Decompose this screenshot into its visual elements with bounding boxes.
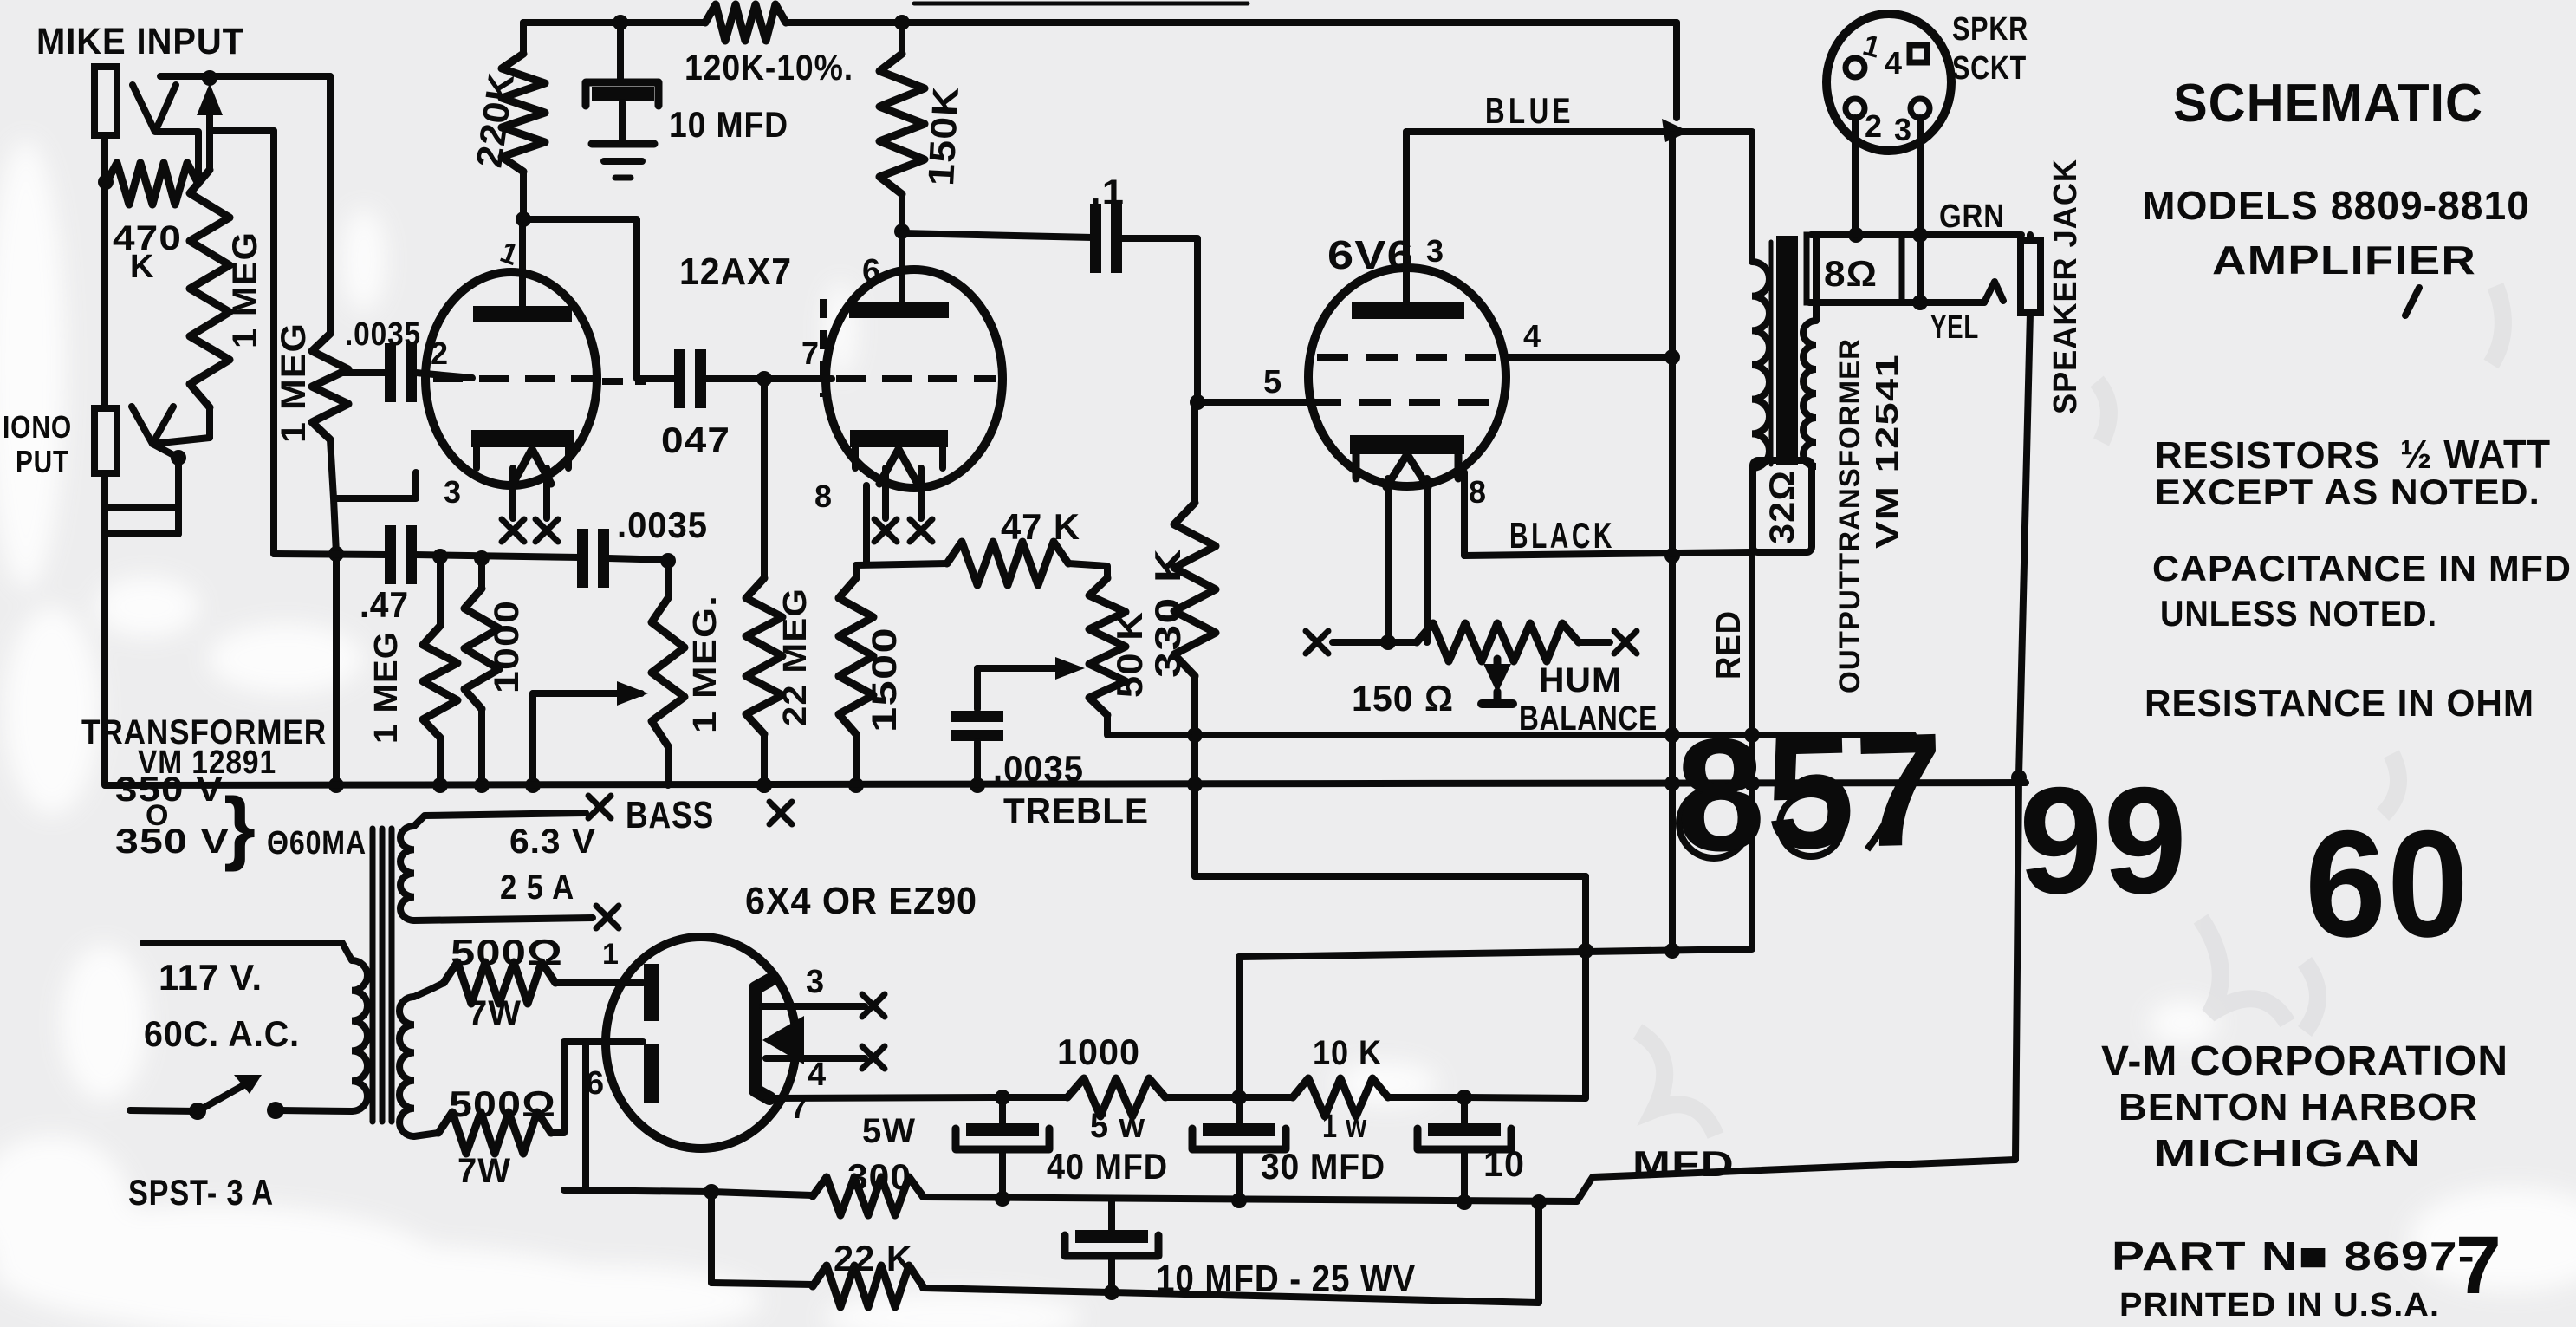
- node tube2 grid / 22MEG: [756, 371, 772, 387]
- 6X4 pin4 heater lead: [766, 1055, 865, 1062]
- svg-text:1 MEG.: 1 MEG.: [687, 595, 723, 733]
- svg-text:40 MFD: 40 MFD: [1047, 1146, 1168, 1187]
- svg-text:V-M CORPORATION: V-M CORPORATION: [2101, 1038, 2508, 1084]
- X mark tube1 heater b: [535, 519, 558, 542]
- svg-text:GRN: GRN: [1939, 198, 2005, 235]
- potentiometer 150 ohm hum balance: [1417, 623, 1579, 661]
- wire OT primary bottom to RED: [1749, 468, 1755, 552]
- node cathode/hum wire: [1380, 634, 1396, 650]
- tube2 cathode bar: [850, 430, 948, 447]
- wire jog to tube1 cathode pin3: [334, 472, 416, 498]
- svg-text:2: 2: [431, 335, 449, 371]
- svg-text:Θ60MA: Θ60MA: [267, 825, 367, 862]
- socket pin3 lead: [1917, 118, 1924, 302]
- node on treble bus: [328, 777, 344, 793]
- node pin5/330K: [1190, 394, 1205, 410]
- svg-text:8: 8: [814, 478, 833, 514]
- output transformer primary coil: [1752, 262, 1769, 468]
- tube2 grid dashed line: [836, 375, 996, 382]
- node pot bottom: [171, 450, 186, 465]
- svg-text:5: 5: [1263, 364, 1282, 400]
- svg-text:60C. A.C.: 60C. A.C.: [144, 1013, 300, 1054]
- node volume pot wiper: [202, 70, 217, 86]
- resistor 120K-10% on top bus: [705, 4, 786, 41]
- wire .047 to tube2 grid: [705, 375, 832, 382]
- svg-text:MIKE INPUT: MIKE INPUT: [36, 21, 244, 62]
- resistor 22 MEG: [761, 379, 768, 578]
- 6V6 plate bar: [1352, 302, 1464, 319]
- tube1 cathode bar: [471, 430, 574, 447]
- resistor 47 K: [947, 542, 1068, 585]
- svg-text:MICHIGAN: MICHIGAN: [2153, 1132, 2422, 1174]
- resistor 300 5W: [813, 1177, 923, 1215]
- svg-text:330 K: 330 K: [1147, 548, 1188, 678]
- svg-text:.1: .1: [1090, 173, 1125, 211]
- treble wiper wire: [977, 665, 1074, 672]
- svg-text:1 MEG: 1 MEG: [275, 322, 313, 443]
- tube 12AX7 section A envelope: [425, 272, 597, 485]
- svg-text:10 MFD - 25 WV: 10 MFD - 25 WV: [1156, 1258, 1416, 1300]
- wire speaker jack top feed: [2027, 235, 2034, 240]
- svg-text:30 MFD: 30 MFD: [1261, 1146, 1385, 1187]
- resistor 330K: [1191, 402, 1198, 503]
- svg-text:OUTPUTTRANSFORMER: OUTPUTTRANSFORMER: [1833, 338, 1866, 693]
- svg-text:PART N■ 8697-: PART N■ 8697-: [2112, 1233, 2475, 1278]
- 6X4 cathode bracket: [756, 980, 769, 1098]
- mike input jack J1: [94, 67, 117, 135]
- resistor 1000 5W: [1067, 1078, 1165, 1116]
- resistor 1 MEG (grid #2): [312, 334, 348, 439]
- potentiometer 50 K (treble): [1089, 578, 1126, 715]
- resistor 10K 1W: [1293, 1078, 1388, 1116]
- svg-text:150 Ω: 150 Ω: [1352, 678, 1454, 719]
- node 220K bottom / plate 1: [516, 211, 531, 227]
- mark slash: [2405, 288, 2419, 315]
- resistor 220K: [520, 23, 527, 54]
- svg-text:47 K: 47 K: [1001, 506, 1080, 547]
- wire hum left: [1333, 639, 1417, 646]
- potentiometer 1 MEG. (bass): [665, 560, 672, 598]
- node RED/bus2: [1744, 776, 1760, 791]
- faint pencil ghost marks (decorative): [1638, 286, 2503, 1135]
- capacitor .0035 (bass): [577, 529, 588, 588]
- node Va/bus1: [1664, 727, 1680, 743]
- X mark below bus near 22MEG: [769, 802, 792, 824]
- node Va/BLACK: [1664, 548, 1680, 563]
- svg-text:SPST- 3 A: SPST- 3 A: [128, 1172, 274, 1213]
- ground symbol: [592, 140, 654, 148]
- svg-text:3: 3: [1426, 233, 1444, 269]
- svg-text:1 MEG: 1 MEG: [368, 631, 405, 744]
- node 22MEG bottom: [756, 777, 772, 793]
- svg-text:12AX7: 12AX7: [679, 250, 792, 293]
- wire pot-bottom vertical: [175, 458, 182, 534]
- wire 6.3V bottom lead to X: [414, 918, 593, 920]
- node 10MFD top: [613, 15, 628, 30]
- wire outer loop top: [1195, 873, 1586, 880]
- wire top bus left segment: [523, 19, 705, 26]
- svg-text:10 MFD: 10 MFD: [669, 104, 788, 145]
- 6V6 cathode bar: [1350, 435, 1464, 454]
- primary coil 117V: [352, 960, 367, 1111]
- svg-text:2 5 A: 2 5 A: [500, 868, 574, 907]
- svg-text:22 K: 22 K: [834, 1238, 913, 1278]
- node bus3/10MFD: [1457, 1194, 1472, 1210]
- tube2 plate bar: [849, 302, 949, 318]
- stamp 857 ghost outlines: [1679, 784, 1906, 858]
- X mark 6X4 pin4: [862, 1046, 885, 1069]
- capacitor .0035 (grid coupling): [385, 343, 396, 402]
- svg-text:7: 7: [801, 335, 820, 371]
- svg-text:5 w: 5 w: [1090, 1107, 1145, 1145]
- svg-text:4: 4: [1885, 45, 1903, 81]
- resistor 1 MEG (mixing): [437, 556, 444, 626]
- svg-text:TREBLE: TREBLE: [1003, 790, 1149, 831]
- svg-text:10 K: 10 K: [1313, 1034, 1382, 1072]
- node 150K top: [894, 15, 910, 30]
- svg-text:.0035: .0035: [617, 504, 708, 545]
- wire pin6 node down to ground bus: [582, 1042, 589, 1190]
- potentiometer 1 MEG (volume): [190, 170, 230, 407]
- treble wiper arrow: [1055, 657, 1085, 680]
- node YEL pin3: [1912, 295, 1928, 310]
- wire tube2 cathode to 47K: [863, 485, 870, 564]
- capacitor .0035 (treble): [974, 668, 981, 709]
- wire YEL: [1809, 299, 1984, 306]
- switch SPST-3A: [267, 1102, 284, 1119]
- capacitor 30 MFD: [1236, 1097, 1243, 1123]
- svg-text:EXCEPT AS NOTED.: EXCEPT AS NOTED.: [2155, 472, 2540, 512]
- wire 1000 to 30MFD node: [1165, 1094, 1239, 1101]
- svg-text:1 MEG: 1 MEG: [226, 231, 264, 348]
- 6V6 plate lead pin3 to BLUE: [1403, 132, 1410, 302]
- node GRN pin3 crossing: [1912, 227, 1928, 243]
- power transformer core: [370, 829, 376, 1122]
- svg-text:1 w: 1 w: [1322, 1109, 1367, 1145]
- node 1000 bottom: [474, 777, 490, 793]
- tube 12AX7 section B envelope: [826, 270, 1002, 488]
- svg-text:HUM: HUM: [1539, 661, 1622, 699]
- svg-text:4: 4: [808, 1057, 827, 1093]
- svg-text:}: }: [224, 781, 256, 873]
- wire bus4: [711, 1283, 813, 1285]
- X mark hum left: [1306, 631, 1328, 654]
- speaker jack spring contact: [1984, 282, 2003, 302]
- svg-text:SPEAKER JACK: SPEAKER JACK: [2047, 159, 2084, 414]
- svg-text:857: 857: [1674, 700, 1947, 886]
- 6X4 plate 1 bar: [644, 964, 659, 1021]
- node 30MFD: [1231, 1090, 1247, 1105]
- wire top bus drop to BLUE node with arrow: [1673, 23, 1680, 118]
- capacitor 10MFD-25WV: [1108, 1201, 1115, 1230]
- svg-text:K: K: [130, 249, 154, 285]
- wire 50K bottom to feedback bus: [1107, 715, 1913, 735]
- wire primary top lead: [143, 943, 352, 960]
- wire top of volume pot to grid wire: [160, 73, 330, 80]
- tube1 cathode arrow: [513, 449, 551, 484]
- node 1MEG top: [432, 549, 448, 564]
- svg-text:1500: 1500: [866, 627, 904, 732]
- socket pin 4 hole: [1910, 45, 1927, 62]
- node bass pot top: [660, 553, 676, 569]
- node bus/1378: [1187, 777, 1203, 792]
- svg-text:7W: 7W: [457, 1152, 511, 1190]
- svg-text:SCHEMATIC: SCHEMATIC: [2173, 74, 2483, 133]
- wire 6.3V top lead to X: [414, 813, 586, 826]
- svg-text:99: 99: [2019, 757, 2188, 926]
- svg-text:PUT: PUT: [16, 444, 69, 479]
- output transformer core: [1776, 236, 1798, 465]
- resistor 500 ohm 7W (upper): [444, 962, 555, 1004]
- wire .1 cap to 6V6 grid pin5: [1121, 238, 1197, 402]
- svg-text:500Ω: 500Ω: [449, 1083, 556, 1124]
- svg-text:SCKT: SCKT: [1952, 50, 2027, 87]
- svg-text:.0035: .0035: [345, 316, 421, 353]
- wire bus3 continue: [923, 1160, 2015, 1201]
- tube1 grid dash outside envelope: [602, 378, 646, 385]
- wire rail to 1000: [1002, 1094, 1067, 1101]
- rectifier heater winding coil: [399, 997, 414, 1136]
- svg-text:300: 300: [847, 1156, 912, 1197]
- node feedback/330K: [1187, 727, 1203, 743]
- speaker jack body: [2021, 240, 2041, 313]
- node riser/loop: [1578, 943, 1593, 959]
- wire into 6V6 grid: [1197, 399, 1313, 406]
- wire B+ rail from 6X4 pin7: [761, 1094, 1002, 1098]
- wire 330K bottom through buses to B loop: [1191, 735, 1198, 876]
- node jack/treble bus: [2011, 770, 2027, 785]
- svg-text:6V6: 6V6: [1327, 232, 1414, 277]
- node 1MEG bottom on bus: [432, 777, 448, 793]
- wire bus4 to riser: [923, 1202, 1539, 1303]
- capacitor .1 (coupling to 6V6): [1090, 204, 1101, 273]
- bass pot wiper wire: [533, 690, 641, 697]
- wire 150K node to .1 cap: [902, 233, 1093, 237]
- svg-text:BENTON HARBOR: BENTON HARBOR: [2119, 1086, 2478, 1129]
- X mark tube2 heater a: [874, 519, 897, 542]
- svg-text:120K-10%.: 120K-10%.: [685, 47, 853, 88]
- X mark 6.3V top: [588, 796, 611, 818]
- wire speaker jack down to bus: [2015, 313, 2030, 1160]
- wire GRN: [1811, 231, 2021, 238]
- speaker socket circle: [1827, 14, 1951, 151]
- wire plate1 node to .047 cap: [523, 219, 677, 379]
- node bus4/10MFD-25WV: [1104, 1285, 1119, 1300]
- svg-text:BLUE: BLUE: [1485, 90, 1574, 131]
- wire .0035 cap to tube1 grid pin2: [416, 373, 472, 378]
- wire RED vertical: [1749, 552, 1755, 948]
- svg-text:VM 12541: VM 12541: [1869, 354, 1904, 549]
- capacitor 10 MFD (decoupling): [617, 23, 624, 80]
- wire upper 500 to 6X4 pin1: [555, 979, 643, 986]
- node 1000 top: [474, 550, 490, 566]
- svg-text:BALANCE: BALANCE: [1519, 699, 1658, 738]
- wire primary bottom to switch: [279, 1110, 352, 1111]
- wire 47K to 50K pot top: [1068, 563, 1107, 578]
- capacitor 40 MFD: [999, 1097, 1006, 1123]
- svg-text:BASS: BASS: [626, 794, 714, 836]
- svg-text:MODELS 8809-8810: MODELS 8809-8810: [2142, 183, 2530, 228]
- svg-text:IONO: IONO: [3, 409, 72, 445]
- wire treble bus (main bottom bus): [106, 783, 2026, 785]
- wire heater bottom to 500ohm lower: [414, 1133, 438, 1136]
- X mark hum right: [1614, 631, 1637, 654]
- tube2 envelope divider dash: [820, 299, 827, 397]
- svg-text:½ WATT: ½ WATT: [2400, 432, 2551, 477]
- 6V6 control grid dashes: [1310, 399, 1504, 406]
- stray top edge line: [914, 2, 1248, 6]
- capacitor 10 MFD (3rd filter): [1461, 1097, 1468, 1123]
- svg-text:50 K: 50 K: [1109, 611, 1150, 698]
- resistor 500 ohm 7W (lower): [438, 1112, 551, 1154]
- heater winding 6.3V coil: [400, 826, 414, 920]
- tube 6V6 envelope: [1308, 268, 1506, 486]
- node 40MFD: [995, 1090, 1010, 1105]
- resistor 22K: [813, 1265, 923, 1307]
- wire grid feed vertical (to 1 MEG grid resistor): [327, 76, 334, 334]
- svg-text:047: 047: [661, 420, 730, 460]
- hum wiper arrow down: [1494, 659, 1502, 666]
- volume pot end V symbol: [133, 85, 176, 132]
- node bus3/30MFD: [1231, 1193, 1247, 1208]
- node bass wiper on bus: [525, 777, 541, 793]
- tube2 cathode arrow: [879, 449, 918, 484]
- phono input jack J2: [94, 408, 117, 473]
- socket pin 1 hole: [1846, 58, 1865, 77]
- svg-text:22 MEG: 22 MEG: [777, 588, 814, 726]
- svg-text:2: 2: [1865, 108, 1883, 144]
- wire tone bus y~640: [274, 554, 387, 555]
- tube1 heater legs to X marks: [509, 468, 516, 518]
- node mike/470K junction: [98, 174, 114, 190]
- svg-text:BLACK: BLACK: [1509, 515, 1615, 556]
- wire .0035 cap to grid resistor top: [343, 369, 387, 376]
- X mark tube2 heater b: [910, 519, 932, 542]
- 6V6 screen grid dashes: [1317, 354, 1497, 361]
- tube 6X4 envelope: [606, 937, 796, 1148]
- svg-text:RED: RED: [1710, 610, 1748, 680]
- wire 30MFD node riser: [1236, 957, 1243, 1097]
- node 1500 bottom: [848, 777, 864, 793]
- volume pot bottom V symbol: [132, 407, 173, 444]
- B+ riser to screen loop: [1582, 876, 1589, 1098]
- svg-text:4: 4: [1523, 318, 1541, 354]
- svg-text:150K: 150K: [920, 85, 966, 186]
- output transformer secondary coil: [1803, 321, 1816, 466]
- tube1 plate lead pin1: [519, 219, 526, 306]
- resistor 1000 (tube1 cathode): [478, 558, 485, 589]
- svg-text:RESISTANCE IN OHM: RESISTANCE IN OHM: [2145, 682, 2534, 725]
- svg-text:3: 3: [806, 964, 825, 1000]
- svg-text:60: 60: [2305, 800, 2469, 969]
- svg-text:6X4 OR EZ90: 6X4 OR EZ90: [745, 880, 977, 922]
- node treble cap on bus: [970, 777, 985, 793]
- wire heater top to 500ohm upper: [414, 983, 444, 997]
- node bus3/40MFD: [995, 1191, 1010, 1207]
- wire BLACK (6V6 cathode return): [1461, 472, 1468, 556]
- 6X4 cathode arrow: [762, 1016, 804, 1064]
- svg-text:YEL: YEL: [1930, 309, 1979, 346]
- svg-text:8: 8: [1469, 474, 1487, 510]
- 6X4 plate 2 bar: [644, 1044, 659, 1103]
- socket pin2 lead: [1852, 118, 1859, 235]
- svg-text:10: 10: [1483, 1143, 1525, 1184]
- wire top bus right segment: [786, 19, 1677, 26]
- svg-text:6.3 V: 6.3 V: [509, 823, 596, 861]
- wire BLUE from 6V6 plate: [1406, 128, 1669, 135]
- 6V6 cathode leads to hum pot: [1385, 478, 1392, 642]
- wire rail to B+ riser: [1464, 1097, 1586, 1098]
- svg-text:1000: 1000: [488, 600, 526, 693]
- wire phono jack down to treble bus: [101, 473, 108, 785]
- svg-text:1: 1: [602, 938, 620, 971]
- wire lower 500 up to 6X4 pin6: [551, 1042, 643, 1133]
- tube2 plate lead pin6: [899, 231, 905, 301]
- svg-text:7W: 7W: [468, 994, 522, 1032]
- socket pin 2 hole: [1846, 99, 1865, 118]
- node 150K bottom / plate2: [894, 224, 910, 239]
- socket pin 3 hole: [1911, 99, 1930, 118]
- wire 470K to volume pot arm corner: [157, 132, 198, 184]
- node bus/882: [756, 777, 772, 793]
- svg-text:RESISTORS: RESISTORS: [2155, 434, 2380, 477]
- wire hum right: [1579, 639, 1610, 646]
- X mark 6.3V bottom: [596, 906, 619, 928]
- svg-text:350 V: 350 V: [115, 771, 224, 809]
- tube1 grid dashed line: [433, 375, 596, 382]
- svg-text:8Ω: 8Ω: [1824, 253, 1878, 294]
- svg-text:1000: 1000: [1057, 1031, 1140, 1072]
- X mark 6X4 pin3: [862, 994, 885, 1017]
- svg-text:UNLESS NOTED.: UNLESS NOTED.: [2160, 593, 2437, 634]
- node Va bottom: [1664, 943, 1680, 959]
- node GRN pin2: [1848, 227, 1864, 243]
- wire ground bus (bus3): [564, 1190, 813, 1195]
- node Va/bus2: [1664, 776, 1680, 791]
- svg-text:32Ω: 32Ω: [1763, 470, 1801, 544]
- svg-text:7: 7: [2456, 1220, 2502, 1311]
- node RED/bus1: [1744, 727, 1760, 743]
- resistor 150K: [899, 23, 905, 54]
- tube2 heater legs: [882, 468, 889, 518]
- paper white smudges (decorative): [0, 0, 1, 1]
- wire BLUE to OT primary: [1681, 132, 1752, 262]
- tube1 plate bar: [473, 306, 572, 322]
- label 8 ohm box: [1807, 235, 1902, 302]
- svg-text:PRINTED IN U.S.A.: PRINTED IN U.S.A.: [2119, 1287, 2440, 1324]
- wire vertical to pot area x316: [270, 131, 277, 554]
- svg-text:117 V.: 117 V.: [159, 957, 263, 998]
- svg-text:SPKR: SPKR: [1952, 11, 2028, 48]
- X mark tube1 heater a: [502, 519, 524, 542]
- svg-text:5W: 5W: [862, 1112, 916, 1150]
- svg-text:3: 3: [1894, 112, 1912, 147]
- bass wiper arrow: [617, 681, 648, 706]
- svg-text:.47: .47: [360, 584, 409, 625]
- wire mike jack to phono jack (left rail): [101, 135, 108, 408]
- svg-text:3: 3: [444, 474, 462, 510]
- wire 1MEG bottom to tone wire and treble bus: [330, 439, 336, 554]
- capacitor .47 (phono coupling): [385, 525, 396, 584]
- 6V6 screen pin4 wire: [1505, 354, 1672, 361]
- resistor 470K: [106, 163, 198, 205]
- wire 10K to 10MFD node: [1388, 1094, 1464, 1101]
- capacitor .047 (coupling): [674, 349, 685, 408]
- svg-text:AMPLIFIER: AMPLIFIER: [2212, 237, 2476, 283]
- node screen/Va: [1664, 349, 1680, 365]
- volume pot wiper arrow: [197, 83, 223, 115]
- wire secondary top to GRN: [1813, 235, 1820, 321]
